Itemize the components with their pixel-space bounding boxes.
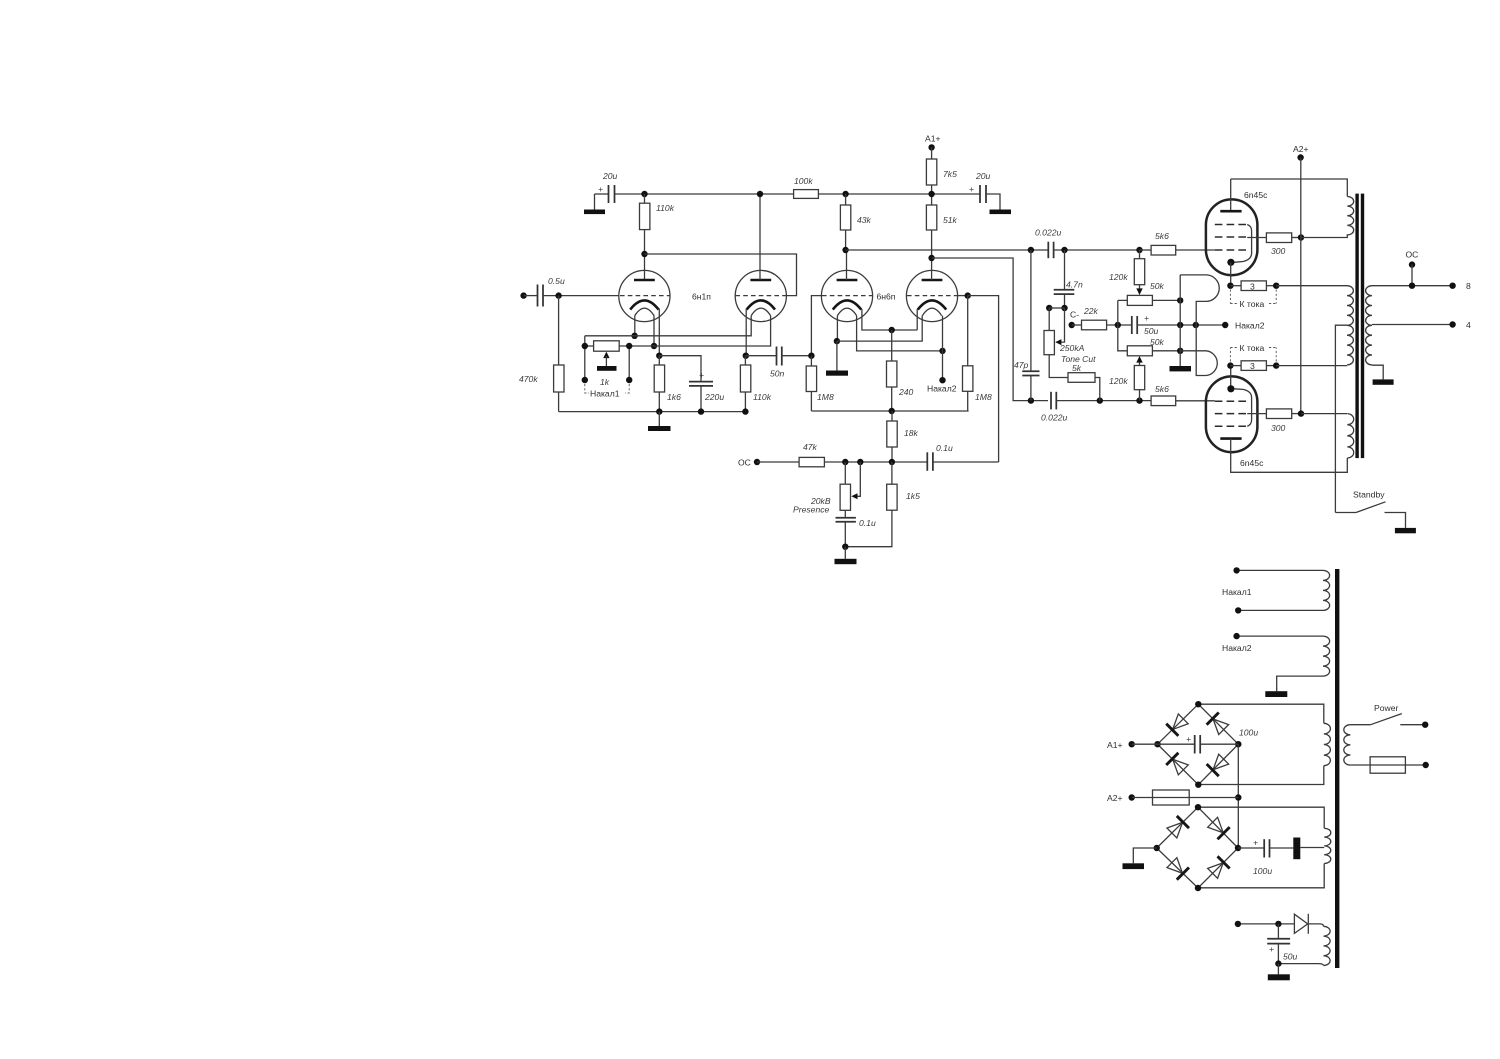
capacitor 100u bridge1 xyxy=(1158,728,1259,754)
wire HV1 top to bridge1 xyxy=(1198,704,1324,723)
capacitor 20u left xyxy=(595,171,618,203)
wire feedback to tube2 grid xyxy=(645,254,797,296)
node 50u top xyxy=(1275,921,1281,927)
node bridge1 right xyxy=(1235,741,1241,747)
svg-text:220u: 220u xyxy=(704,392,724,402)
svg-text:4: 4 xyxy=(1466,320,1471,330)
wire cathode top lead xyxy=(1230,262,1232,285)
node bridge2 top xyxy=(1195,804,1201,810)
potentiometer 1k hum balance xyxy=(594,341,620,387)
winding HV1 xyxy=(1324,723,1331,765)
svg-text:50k: 50k xyxy=(1150,281,1165,291)
resistor 3 top xyxy=(1230,281,1276,291)
wire J1 down xyxy=(558,296,560,365)
wire g2 bottom to 300 xyxy=(1247,413,1266,415)
svg-text:240: 240 xyxy=(898,387,914,397)
capacitor 47p xyxy=(1014,250,1040,401)
winding bias xyxy=(1324,926,1331,965)
capacitor 0.1u coupling xyxy=(927,443,998,471)
tube U1b 6n1p triode 2 xyxy=(692,270,786,321)
wire secondary 8 ohm tap xyxy=(1372,285,1453,287)
wire tone wiper arrow xyxy=(1055,308,1064,345)
node plate1 junction xyxy=(641,251,647,257)
svg-text:50u: 50u xyxy=(1144,326,1159,336)
node Nakal1 left terminal xyxy=(582,377,588,383)
diode bias xyxy=(1294,914,1308,934)
winding OT cathode xyxy=(1347,286,1353,365)
wire heater loop bottom tube xyxy=(1180,325,1217,376)
node rail 110k2 xyxy=(742,408,748,414)
wire secondary 4 ohm tap xyxy=(1372,324,1453,326)
svg-text:50u: 50u xyxy=(1283,952,1298,962)
wire cathode winding center tap xyxy=(1335,325,1347,512)
resistor 5k tone xyxy=(1049,355,1100,401)
svg-text:Power: Power xyxy=(1374,703,1398,713)
switch Power xyxy=(1350,703,1428,728)
node J1 xyxy=(555,292,561,298)
node A1+ terminal xyxy=(925,134,941,160)
svg-text:A1+: A1+ xyxy=(925,134,941,144)
svg-text:110k: 110k xyxy=(656,203,675,213)
node ground line x50u xyxy=(1177,322,1183,328)
potentiometer 50k top xyxy=(1127,281,1180,305)
wire tube3 plate lead xyxy=(846,250,848,280)
node rail 1k6 xyxy=(656,408,662,414)
tube U1a 6n1p triode 1 xyxy=(619,270,670,321)
diode bridge2 top-right xyxy=(1207,816,1230,839)
svg-text:100u: 100u xyxy=(1253,866,1272,876)
capacitor 50n xyxy=(746,347,812,379)
winding OT secondary xyxy=(1366,286,1372,365)
wire plate3 to coupling caps xyxy=(846,249,1048,251)
rectifier bridge1 diamond xyxy=(1158,704,1239,785)
node cathode2 xyxy=(743,353,749,359)
wire pot left vertical xyxy=(584,336,586,380)
wire bottom plate to OT xyxy=(1231,439,1348,473)
capacitor 20u right xyxy=(969,171,1011,214)
resistor 100k xyxy=(794,176,819,198)
node terminal 4 xyxy=(1449,320,1471,330)
svg-text:A2+: A2+ xyxy=(1107,793,1123,803)
ground heater3 xyxy=(826,341,848,376)
node C- supply terminal xyxy=(1235,921,1241,927)
node 47p top xyxy=(1028,247,1034,253)
node tube1 plate rail xyxy=(641,191,647,197)
svg-text:120k: 120k xyxy=(1109,272,1128,282)
node cathode1 xyxy=(656,353,662,359)
svg-text:+: + xyxy=(1144,313,1149,323)
node 43k top xyxy=(842,191,848,197)
svg-text:3: 3 xyxy=(1250,281,1255,291)
node rail2 240 xyxy=(889,408,895,414)
svg-text:100u: 100u xyxy=(1239,728,1258,738)
switch Standby xyxy=(1335,490,1416,534)
svg-text:К тока: К тока xyxy=(1240,299,1265,309)
svg-text:1k5: 1k5 xyxy=(906,491,920,501)
svg-text:OC: OC xyxy=(1406,250,1419,260)
capacitor 50u bias xyxy=(1132,313,1225,336)
ground main (input stage) xyxy=(648,412,671,431)
transformer OT core xyxy=(1355,194,1364,459)
wire tube3 cathode lead xyxy=(862,309,917,330)
svg-text:Presence: Presence xyxy=(793,505,830,515)
svg-text:Накал2: Накал2 xyxy=(927,384,957,394)
node heater y=351 xyxy=(939,348,945,354)
node 4.7n top xyxy=(1061,247,1067,253)
resistor 3 bottom xyxy=(1230,361,1276,371)
wire plate4 down to lower coupling xyxy=(932,258,1048,401)
svg-text:К тока: К тока xyxy=(1240,343,1265,353)
ground secondary xyxy=(1372,365,1394,385)
ground Nakal2 xyxy=(1265,676,1323,697)
svg-text:1M8: 1M8 xyxy=(817,392,834,402)
wire A2+ vertical xyxy=(1300,158,1302,414)
node 7k5 bottom xyxy=(928,191,934,197)
wire presence wiper arrow xyxy=(851,462,860,499)
node OC top xyxy=(1406,250,1419,289)
node A1+ supply xyxy=(1107,740,1158,750)
node Nakal1 supply bottom xyxy=(1235,607,1323,613)
wire heater rail y2 xyxy=(585,316,771,346)
svg-text:120k: 120k xyxy=(1109,376,1128,386)
svg-text:5k6: 5k6 xyxy=(1155,231,1169,241)
wire top plate to OT xyxy=(1231,179,1348,197)
node A2+ screen top xyxy=(1298,234,1304,240)
wire cathode top to winding xyxy=(1276,285,1347,287)
wire tube3 heater right leg xyxy=(857,316,943,351)
wire bias top lead xyxy=(1308,924,1323,926)
svg-text:+: + xyxy=(1253,838,1258,848)
node bridge2 left xyxy=(1154,845,1160,851)
node pot right xyxy=(626,343,632,349)
diode bridge2 top-left xyxy=(1166,816,1189,839)
wire heater rail y1 xyxy=(585,316,751,336)
node presence wiper xyxy=(857,459,863,465)
resistor 1k5 xyxy=(845,462,920,547)
node tube3 plate xyxy=(842,247,848,253)
wire tube3 grid hook xyxy=(811,296,821,356)
svg-text:470k: 470k xyxy=(519,374,538,384)
node cathode top xyxy=(1227,283,1233,289)
ground bias xyxy=(1268,964,1290,981)
node bridge2 bottom xyxy=(1195,885,1201,891)
wire tube4 plate lead xyxy=(931,258,933,280)
wire bias to C- terminal xyxy=(1238,923,1295,925)
node K toka top xyxy=(1230,290,1276,310)
svg-text:300: 300 xyxy=(1271,246,1286,256)
wire bottom rail 2 xyxy=(811,410,968,412)
svg-text:4.7n: 4.7n xyxy=(1066,280,1083,290)
wire tube1 heater right leg xyxy=(653,316,655,346)
winding PT primary xyxy=(1344,725,1351,765)
svg-text:20u: 20u xyxy=(602,171,618,181)
winding OT primary top xyxy=(1301,197,1354,238)
node terminal 8 xyxy=(1449,281,1471,291)
ground pot wiper xyxy=(597,352,617,371)
wire cathode bottom to winding xyxy=(1276,365,1347,367)
node A2+ rail junction xyxy=(1235,794,1241,800)
capacitor 0.5u xyxy=(538,276,565,307)
svg-text:5k6: 5k6 xyxy=(1155,384,1169,394)
svg-text:0.5u: 0.5u xyxy=(548,276,565,286)
node C- terminal xyxy=(1069,310,1082,329)
node 47p bottom xyxy=(1028,397,1034,403)
wire tube1 cathode lead xyxy=(658,309,660,356)
svg-text:0.022u: 0.022u xyxy=(1035,228,1062,238)
node Nakal1 supply top xyxy=(1233,567,1323,573)
node 50u bottom xyxy=(1275,960,1281,966)
wire bias bottom lead xyxy=(1278,964,1323,966)
resistor 5k6 top xyxy=(1140,231,1215,255)
transformer PT core xyxy=(1335,569,1339,968)
resistor 7k5 xyxy=(926,159,957,205)
node A2+ terminal xyxy=(1293,144,1309,161)
node tone top right xyxy=(1061,305,1067,311)
capacitor 220u xyxy=(659,356,724,412)
svg-text:+: + xyxy=(969,184,974,194)
node 240 top xyxy=(889,327,895,333)
resistor 18k xyxy=(887,411,919,462)
capacitor 50u supply xyxy=(1267,924,1297,964)
wire feedback rail y=462 xyxy=(824,461,927,463)
winding Nakal1 xyxy=(1323,570,1330,610)
node heater wire y2 xyxy=(651,343,657,349)
node bridge1 bottom xyxy=(1195,782,1201,788)
potentiometer 20kB Presence xyxy=(793,462,851,515)
ground bridge2 left xyxy=(1123,848,1157,869)
node Nakal1 label xyxy=(585,384,629,399)
resistor 300 top xyxy=(1266,233,1301,256)
wire 1k6 to rail xyxy=(658,392,660,412)
wire 470k to bottom rail xyxy=(558,392,560,412)
svg-text:+: + xyxy=(1269,944,1274,954)
node tube4 plate xyxy=(928,255,934,261)
tube U2b 6n6p triode 2 xyxy=(877,270,958,321)
wire tube2 cathode lead xyxy=(745,309,747,356)
wire pots left vertical xyxy=(1118,300,1128,350)
svg-text:OC: OC xyxy=(738,458,751,468)
capacitor 0.022u top xyxy=(1035,228,1140,259)
wire 110k to plate junction xyxy=(644,230,646,280)
wire g2 to 300 top xyxy=(1247,237,1266,239)
ground for 20u left xyxy=(584,194,605,214)
svg-text:47k: 47k xyxy=(803,442,818,452)
wire heater rail y=341 xyxy=(837,316,922,342)
diode bridge2 bottom-right xyxy=(1207,856,1230,879)
svg-text:0.1u: 0.1u xyxy=(859,518,876,528)
resistor 1k6 xyxy=(654,356,681,402)
tube U2a 6n6p triode 1 xyxy=(821,270,872,321)
diode bridge1 bottom-right xyxy=(1207,753,1230,776)
resistor 1M8 left xyxy=(806,356,834,411)
resistor 120k top xyxy=(1109,250,1145,295)
svg-text:3: 3 xyxy=(1250,361,1255,371)
svg-text:A2+: A2+ xyxy=(1293,144,1309,154)
svg-text:7k5: 7k5 xyxy=(943,169,957,179)
node bias pots left xyxy=(1115,322,1121,328)
node bridge2 right xyxy=(1235,845,1241,851)
svg-text:1k: 1k xyxy=(600,377,610,387)
svg-text:6n45c: 6n45c xyxy=(1240,458,1264,468)
wire rail B xyxy=(818,193,980,195)
capacitor 0.022u bottom xyxy=(1041,392,1151,423)
resistor 22k xyxy=(1082,306,1132,330)
svg-text:22k: 22k xyxy=(1083,306,1099,316)
resistor 300 bottom xyxy=(1266,409,1301,433)
node Nakal2 terminal left xyxy=(927,377,957,394)
node bridge1 top xyxy=(1195,701,1201,707)
resistor 1M8 right xyxy=(963,296,992,411)
wire tube3 heater left leg xyxy=(836,316,838,342)
svg-text:50k: 50k xyxy=(1150,337,1165,347)
diode bridge1 top-right xyxy=(1207,713,1230,736)
node bridge1 left xyxy=(1154,741,1160,747)
resistor 110k (first) xyxy=(640,194,675,230)
svg-text:0.022u: 0.022u xyxy=(1041,413,1068,423)
tube V2 6p45s bottom xyxy=(1206,366,1264,468)
node Nakal2 right terminal xyxy=(1222,321,1265,331)
node tone top left xyxy=(1046,305,1052,311)
ground presence xyxy=(835,547,857,565)
node OC left xyxy=(738,458,799,468)
diode bridge1 top-left xyxy=(1166,713,1189,736)
svg-text:6n45c: 6n45c xyxy=(1244,190,1268,200)
svg-text:250kA: 250kA xyxy=(1059,343,1085,353)
resistor 5k6 bottom xyxy=(1151,384,1215,406)
resistor 43k xyxy=(840,194,871,250)
wire HV2 top to bridge2 xyxy=(1198,807,1324,828)
node grid3 xyxy=(808,353,814,359)
svg-text:0.1u: 0.1u xyxy=(936,443,953,453)
wire bottom rail left xyxy=(559,411,746,413)
resistor 51k xyxy=(926,205,957,258)
wire tube2 plate lead xyxy=(759,194,761,280)
resistor 240 xyxy=(887,330,914,411)
ground bias bus xyxy=(1170,366,1192,371)
node rail 220u xyxy=(698,408,704,414)
svg-text:Накал1: Накал1 xyxy=(1222,587,1252,597)
svg-text:1k6: 1k6 xyxy=(667,392,681,402)
winding OT primary bottom xyxy=(1347,414,1353,458)
svg-text:1M8: 1M8 xyxy=(975,392,992,402)
capacitor 100u bridge2 xyxy=(1238,838,1324,877)
wire heater loop top tube xyxy=(1180,275,1219,325)
node heater3 ground xyxy=(834,338,840,344)
svg-text:6н6п: 6н6п xyxy=(877,292,896,302)
fuse A2+ xyxy=(1153,790,1239,805)
node input terminal xyxy=(520,292,537,298)
svg-text:51k: 51k xyxy=(943,215,958,225)
node heater drop xyxy=(1193,322,1199,328)
diode bridge2 bottom-left xyxy=(1166,857,1189,880)
svg-text:C-: C- xyxy=(1070,310,1079,320)
svg-text:Накал1: Накал1 xyxy=(590,389,620,399)
wire ground bus vertical xyxy=(1179,275,1181,366)
resistor 470k xyxy=(519,365,564,392)
wire screen bottom to winding xyxy=(1301,413,1347,415)
wire tube4 cathode lead xyxy=(916,309,918,330)
node 18k bottom xyxy=(889,459,895,465)
svg-text:47p: 47p xyxy=(1014,360,1029,370)
resistor 120k bottom xyxy=(1109,356,1145,401)
wire tube4 grid right xyxy=(957,292,998,462)
svg-text:+: + xyxy=(1186,734,1191,744)
svg-text:Накал2: Накал2 xyxy=(1235,321,1265,331)
node 120k bottom junction xyxy=(1136,397,1142,403)
wire top rail A xyxy=(615,193,794,195)
wire input to tube1 grid xyxy=(543,295,619,297)
tube V1 6p45s top xyxy=(1206,179,1268,275)
node pot left xyxy=(582,343,588,349)
node heater wire y1 xyxy=(631,333,637,339)
node K toka bottom xyxy=(1230,343,1276,362)
svg-text:Накал2: Накал2 xyxy=(1222,643,1252,653)
svg-text:18k: 18k xyxy=(904,428,919,438)
svg-text:6н1п: 6н1п xyxy=(692,292,711,302)
node 5k bottom junction xyxy=(1097,397,1103,403)
node Nakal2 supply top xyxy=(1233,633,1323,639)
node Nakal1 right terminal xyxy=(626,377,632,383)
svg-text:8: 8 xyxy=(1466,281,1471,291)
node presence top xyxy=(842,459,848,465)
node 3 bottom right xyxy=(1273,362,1279,368)
resistor 110k (second) xyxy=(740,356,771,412)
wire tube4 heater right leg to Nakal2 xyxy=(942,316,944,381)
rectifier bridge2 diamond xyxy=(1157,807,1238,888)
svg-text:50n: 50n xyxy=(770,369,785,379)
wire tube1 heater left leg xyxy=(634,316,636,336)
svg-text:A1+: A1+ xyxy=(1107,740,1123,750)
wire HV2 bottom to bridge2 xyxy=(1198,864,1324,888)
svg-text:+: + xyxy=(699,370,704,380)
potentiometer 50k bottom xyxy=(1127,337,1180,356)
svg-text:300: 300 xyxy=(1271,423,1286,433)
winding HV2 xyxy=(1324,828,1331,863)
wire HV1 bottom to bridge1 xyxy=(1198,766,1324,785)
resistor 47k xyxy=(799,442,824,467)
svg-text:43k: 43k xyxy=(857,215,872,225)
node cathode bottom xyxy=(1227,362,1233,368)
node A2+ supply xyxy=(1107,793,1153,803)
node 3 top right xyxy=(1273,283,1279,289)
svg-text:Standby: Standby xyxy=(1353,490,1385,500)
wire tone tee xyxy=(1049,307,1064,309)
capacitor 0.1u presence xyxy=(836,510,876,546)
winding Nakal2 xyxy=(1323,636,1330,676)
wire pot right vertical xyxy=(628,346,630,380)
diode bridge1 bottom-left xyxy=(1166,753,1189,776)
svg-text:110k: 110k xyxy=(753,392,772,402)
node 5k6 top junction xyxy=(1136,247,1142,253)
svg-text:100k: 100k xyxy=(794,176,813,186)
svg-text:5k: 5k xyxy=(1072,363,1082,373)
node presence ground xyxy=(842,544,848,550)
node A2+ screen bottom xyxy=(1298,410,1304,416)
svg-text:20u: 20u xyxy=(975,171,991,181)
node tube2 plate rail xyxy=(757,191,763,197)
wire bridge1 right down xyxy=(1237,744,1239,848)
potentiometer 250kA Tone Cut xyxy=(1044,308,1096,364)
capacitor 4.7n xyxy=(1054,250,1083,308)
node 50k bottom right xyxy=(1177,348,1183,354)
node 50k top right xyxy=(1177,297,1183,303)
svg-text:+: + xyxy=(598,184,603,194)
fuse mains xyxy=(1350,757,1429,773)
